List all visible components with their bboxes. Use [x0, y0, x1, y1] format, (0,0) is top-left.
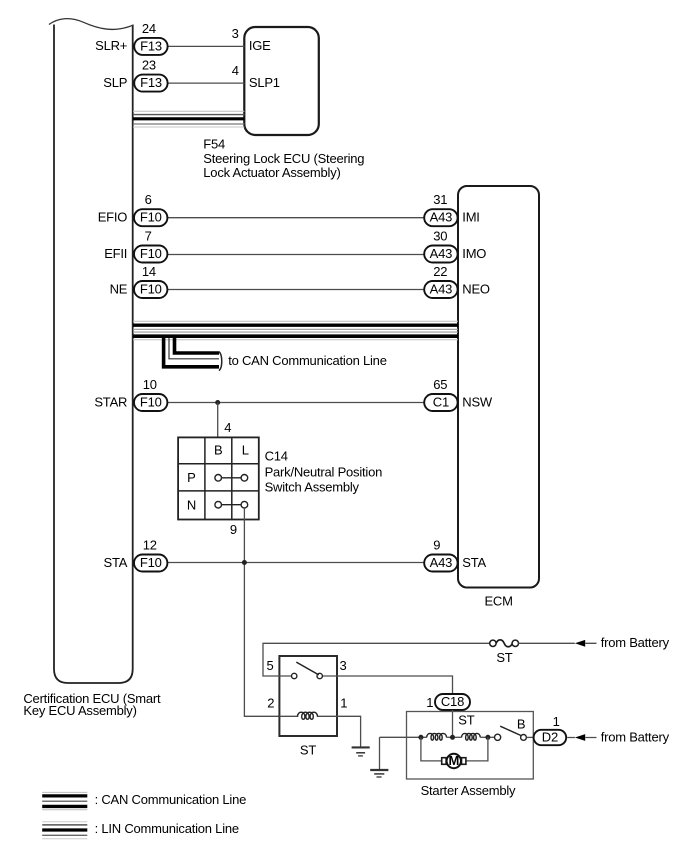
from Battery arrow (bottom) — [575, 734, 585, 741]
svg-text:from Battery: from Battery — [601, 729, 670, 744]
connector F10 pin 10 — [134, 394, 167, 411]
svg-text:F10: F10 — [140, 246, 162, 261]
svg-text:2: 2 — [267, 695, 274, 710]
svg-text:4: 4 — [232, 63, 239, 78]
svg-text:NE: NE — [110, 281, 128, 296]
wire D2 to arrow — [567, 737, 596, 739]
connector A43 pin 30 IMO — [424, 246, 457, 263]
relay switch contacts — [292, 673, 297, 678]
svg-text:5: 5 — [266, 658, 273, 673]
svg-text:NSW: NSW — [462, 394, 493, 409]
junction node motor left — [418, 735, 423, 740]
legend LIN symbol — [42, 821, 87, 823]
junction node on STAR wire — [215, 400, 220, 405]
svg-text:14: 14 — [142, 264, 156, 279]
Certification ECU box (Smart Key ECU Assembly) — [54, 25, 133, 684]
svg-text:3: 3 — [340, 658, 347, 673]
svg-text:Lock Actuator Assembly): Lock Actuator Assembly) — [203, 165, 340, 180]
svg-text:L: L — [242, 443, 249, 458]
LIN bus between Certification ECU and Steering Lock ECU — [133, 110, 244, 112]
connector D2 pin 1 — [534, 730, 567, 745]
starter main wire — [380, 736, 427, 738]
svg-text:Park/Neutral Position: Park/Neutral Position — [265, 465, 383, 480]
wire NE to NEO — [167, 289, 424, 291]
starter coil 1 — [427, 733, 447, 740]
svg-text:IMI: IMI — [462, 210, 479, 225]
svg-text:IMO: IMO — [462, 246, 486, 261]
starter switch lever and contact B — [500, 726, 521, 735]
svg-text:ST: ST — [496, 650, 512, 665]
P row contact — [215, 475, 222, 482]
svg-text:C1: C1 — [433, 394, 449, 409]
svg-text:C18: C18 — [441, 694, 464, 709]
wire STAR to NSW — [167, 402, 424, 404]
ground (starter) — [379, 737, 381, 769]
svg-text:Switch Assembly: Switch Assembly — [265, 480, 360, 495]
relay lever — [296, 662, 319, 675]
svg-text:SLR+: SLR+ — [95, 38, 127, 53]
svg-text:B: B — [517, 717, 525, 732]
svg-text:ST: ST — [300, 743, 316, 758]
svg-text:A43: A43 — [430, 210, 452, 225]
svg-text:B: B — [214, 443, 222, 458]
wire STA to STA — [167, 562, 424, 564]
connector F10 pin 14 — [134, 281, 167, 298]
wire EFII to IMO — [167, 254, 424, 256]
svg-text:STAR: STAR — [94, 394, 127, 409]
connector F10 pin 7 — [134, 246, 167, 263]
connector F13 pin 23 — [134, 75, 167, 92]
svg-text:3: 3 — [232, 26, 239, 41]
svg-text:1: 1 — [553, 714, 560, 729]
svg-text:6: 6 — [145, 192, 152, 207]
svg-text:1: 1 — [340, 695, 347, 710]
svg-text:24: 24 — [142, 21, 156, 36]
svg-text:23: 23 — [142, 58, 156, 73]
svg-text:from Battery: from Battery — [601, 635, 670, 650]
svg-text:65: 65 — [433, 377, 447, 392]
svg-text:ECM: ECM — [484, 593, 512, 608]
svg-text:EFIO: EFIO — [98, 210, 128, 225]
svg-text:7: 7 — [145, 228, 152, 243]
wire SLR+ to IGE — [168, 45, 245, 47]
svg-text:22: 22 — [433, 264, 447, 279]
connector A43 pin 22 NEO — [424, 281, 457, 298]
wire pin 9 from switch down to relay pin 2 — [244, 508, 279, 716]
svg-text:SLP1: SLP1 — [249, 75, 280, 90]
svg-text:Steering Lock ECU (Steering: Steering Lock ECU (Steering — [203, 151, 364, 166]
svg-text:EFII: EFII — [104, 246, 127, 261]
svg-text:IGE: IGE — [249, 38, 271, 53]
wire switch B to D2 — [526, 736, 533, 738]
svg-text:: LIN Communication Line: : LIN Communication Line — [95, 821, 239, 836]
svg-text:F54: F54 — [203, 137, 225, 152]
svg-text:1: 1 — [426, 695, 433, 710]
relay interior wire stubs — [279, 675, 337, 677]
CAN branch to CAN communication line — [175, 337, 220, 353]
svg-text:F10: F10 — [140, 281, 162, 296]
Certification ECU wavy top edge — [49, 19, 134, 30]
N row contact — [215, 501, 222, 508]
connector C18 pin 1 — [435, 694, 470, 710]
relay coil — [298, 712, 318, 719]
svg-text:10: 10 — [143, 377, 157, 392]
svg-text:D2: D2 — [542, 729, 558, 744]
svg-text:A43: A43 — [430, 281, 452, 296]
svg-text:ST: ST — [458, 713, 474, 728]
svg-text:: CAN Communication Line: : CAN Communication Line — [95, 792, 247, 807]
wire relay pin 1 to ground — [337, 716, 361, 747]
wire fuse to arrow — [518, 642, 596, 644]
svg-text:A43: A43 — [430, 555, 452, 570]
svg-text:SLP: SLP — [103, 75, 127, 90]
connector F10 pin 12 — [134, 555, 167, 572]
svg-text:F10: F10 — [140, 555, 162, 570]
wire from STAR junction down to switch pin 4 — [217, 403, 219, 438]
svg-text:P: P — [187, 470, 195, 485]
svg-text:9: 9 — [433, 537, 440, 552]
wire EFIO to IMI — [167, 217, 424, 219]
motor M — [442, 758, 446, 765]
svg-text:STA: STA — [462, 555, 486, 570]
Park/Neutral Position Switch C14 table — [178, 437, 259, 519]
connector A43 pin 31 IMI — [424, 209, 457, 226]
wire SLP to SLP1 — [168, 82, 245, 84]
wire relay pin 5 to fuse ST and battery — [263, 643, 490, 676]
junction node C18 drop — [450, 735, 455, 740]
svg-text:STA: STA — [104, 555, 128, 570]
starter switch open terminal — [495, 734, 501, 740]
svg-text:C14: C14 — [265, 449, 288, 464]
ECM box — [458, 186, 539, 588]
svg-text:N: N — [187, 497, 196, 512]
from Battery arrow (top) — [575, 640, 585, 647]
svg-text:to CAN Communication Line: to CAN Communication Line — [228, 353, 387, 368]
connector F10 pin 6 — [134, 209, 167, 226]
connector C1 pin 65 NSW — [424, 394, 457, 411]
wire relay pin 3 to C18 — [337, 676, 453, 694]
legend CAN symbol — [42, 791, 87, 793]
wire C18 down into starter — [452, 710, 454, 737]
Starter Assembly box — [407, 712, 534, 780]
CAN bus between Certification ECU and ECM — [133, 320, 458, 322]
svg-text:9: 9 — [230, 522, 237, 537]
connector F13 pin 24 — [134, 38, 167, 55]
svg-text:A43: A43 — [430, 246, 452, 261]
svg-text:30: 30 — [433, 228, 447, 243]
ground (relay) — [352, 746, 370, 748]
Steering Lock ECU box F54 — [244, 27, 318, 135]
svg-text:4: 4 — [224, 420, 231, 435]
svg-text:M: M — [448, 753, 459, 768]
svg-text:NEO: NEO — [462, 281, 490, 296]
ST relay box — [279, 656, 337, 736]
svg-text:F10: F10 — [140, 210, 162, 225]
svg-text:Key ECU Assembly): Key ECU Assembly) — [23, 703, 136, 718]
svg-text:12: 12 — [143, 537, 157, 552]
svg-text:31: 31 — [433, 192, 447, 207]
svg-text:F10: F10 — [140, 394, 162, 409]
fuse ST — [490, 640, 496, 646]
svg-text:Starter Assembly: Starter Assembly — [421, 783, 516, 798]
motor branch — [421, 737, 442, 761]
junction node motor right — [485, 735, 490, 740]
starter coil 2 — [462, 733, 481, 740]
connector A43 pin 9 STA — [424, 555, 457, 572]
junction node on STA wire — [242, 560, 247, 565]
svg-text:F13: F13 — [140, 38, 162, 53]
svg-text:F13: F13 — [140, 75, 162, 90]
